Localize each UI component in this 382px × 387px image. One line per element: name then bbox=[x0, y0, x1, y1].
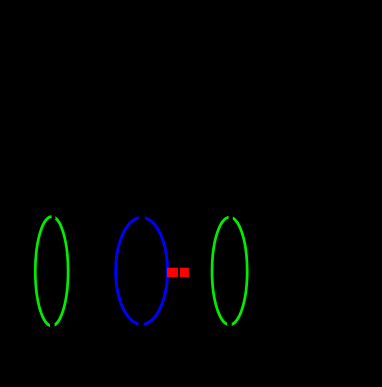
coil right (green ellipse) bbox=[212, 215, 247, 328]
red dashed segment (block 2) bbox=[180, 268, 189, 277]
coil left (green ellipse) bbox=[35, 214, 68, 329]
red dashed segment (block 1) bbox=[167, 268, 178, 277]
coil middle (blue ellipse) bbox=[116, 215, 168, 329]
